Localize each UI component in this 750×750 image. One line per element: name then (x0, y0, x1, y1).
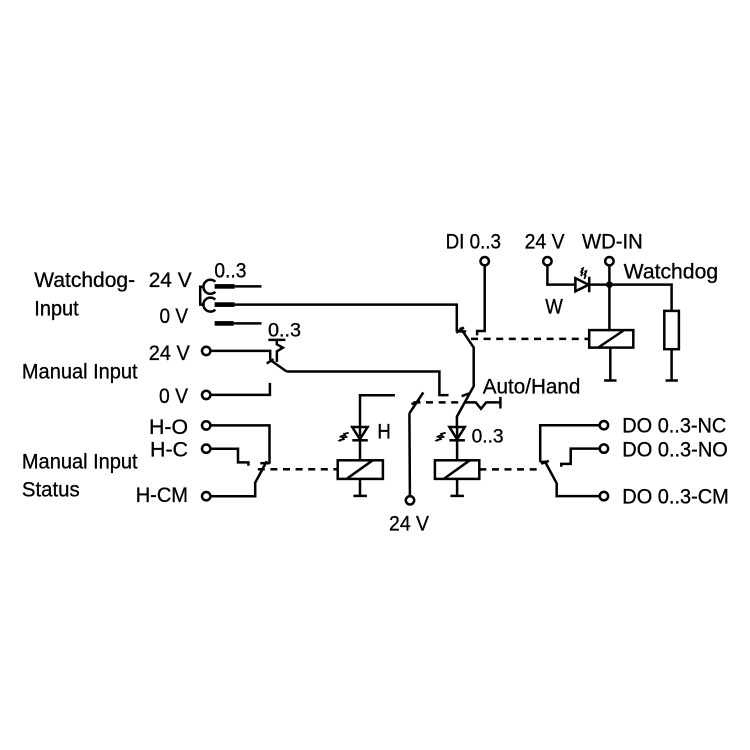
ground (coil W) (604, 379, 616, 382)
relay coil W diagonal (598, 330, 624, 348)
LED 0..3 triangle (449, 427, 464, 439)
hand switch arm (409, 393, 423, 414)
relay coil H (338, 460, 383, 479)
svg-text:0 V: 0 V (160, 305, 189, 328)
svg-text:24 V: 24 V (149, 269, 192, 292)
wire button output long run (287, 372, 449, 396)
svg-text:DI 0..3: DI 0..3 (446, 231, 501, 254)
dashed link watchdog relay (471, 338, 589, 341)
LED W cathode bar (588, 277, 591, 293)
LED W emission arrows (581, 267, 588, 279)
wire 0V manual stub (210, 383, 270, 395)
terminal DO NC (600, 421, 608, 429)
svg-text:H: H (377, 420, 390, 443)
svg-text:0..3: 0..3 (268, 320, 301, 341)
H contact seat (260, 462, 269, 465)
DO contact seat (540, 461, 547, 464)
auto/hand handle bar (499, 397, 502, 409)
wire DO NC to seat (540, 425, 600, 462)
svg-text:Auto/Hand: Auto/Hand (483, 375, 581, 398)
svg-text:24 V: 24 V (389, 513, 429, 536)
LED H triangle (352, 427, 367, 439)
terminal 24 V top (543, 257, 551, 265)
wire pin1 stub (235, 285, 262, 288)
watchdog contact seat (457, 330, 466, 333)
LED H emission arrows (337, 433, 348, 442)
svg-text:H-O: H-O (149, 416, 188, 439)
svg-text:WD-IN: WD-IN (582, 231, 643, 254)
connector socket C1 (203, 280, 215, 294)
wire resistor to ground (670, 349, 673, 380)
wire coil 0..3 to ground (456, 479, 459, 496)
resistor R (664, 311, 679, 349)
svg-text:Watchdog: Watchdog (624, 260, 718, 283)
svg-text:DO 0..3-CM: DO 0..3-CM (622, 486, 729, 509)
svg-text:Manual Input: Manual Input (22, 450, 138, 473)
dashed link H relay (258, 468, 338, 471)
svg-text:H-CM: H-CM (136, 484, 188, 507)
terminal DI 0..3 (481, 257, 489, 265)
svg-text:0 V: 0 V (159, 385, 188, 408)
terminal 0V manual (202, 391, 210, 399)
svg-text:Watchdog-: Watchdog- (34, 269, 135, 292)
relay coil 0..3 diagonal (444, 460, 470, 479)
terminal WD-IN (605, 257, 613, 265)
wire junction down to coil (608, 285, 611, 331)
wire pin3 stub (234, 322, 262, 325)
pushbutton stem (277, 340, 283, 362)
DO contact arm (545, 461, 600, 496)
svg-text:Status: Status (22, 478, 80, 501)
svg-text:DO 0..3-NO: DO 0..3-NO (622, 439, 728, 462)
dashed link auto/hand left (413, 401, 462, 404)
wire coil W to ground (609, 348, 612, 381)
svg-text:0..3: 0..3 (472, 426, 504, 447)
auto contact tick (462, 393, 470, 396)
svg-text:0..3: 0..3 (214, 260, 246, 283)
terminal DO CM (600, 492, 608, 500)
svg-text:24 V: 24 V (525, 231, 565, 254)
wire WD-IN down (608, 265, 611, 284)
wire LED 0..3 to coil (456, 440, 459, 460)
connector pin bar 3 (215, 321, 234, 326)
LED W triangle (575, 278, 588, 291)
terminal H-O (202, 421, 210, 429)
svg-text:W: W (545, 296, 563, 319)
svg-text:Manual Input: Manual Input (22, 361, 138, 384)
wire H-O to seat (210, 425, 269, 463)
connector socket C2 (203, 298, 215, 312)
button contact tick (267, 359, 274, 363)
terminal H-CM (202, 492, 210, 500)
terminal 24 V bottom (406, 496, 414, 504)
relay coil W (589, 330, 633, 348)
relay coil H diagonal (347, 460, 373, 479)
LED 0..3 cathode bar (449, 439, 465, 442)
LED 0..3 emission arrows (434, 433, 445, 442)
ground (coil H) (353, 495, 367, 498)
connector pin bar 2 (215, 302, 235, 307)
wire DI down to contact seat (477, 266, 485, 336)
wire H-C hook (210, 449, 248, 466)
wire diode to junction to resistor (589, 285, 671, 311)
wire coil H to ground (359, 479, 362, 496)
terminal 24V manual (202, 347, 210, 355)
connector bracket (200, 287, 204, 305)
svg-text:24 V: 24 V (149, 342, 190, 365)
pushbutton bar (268, 339, 285, 342)
button contact arm (270, 360, 286, 372)
connector pin bar 1 (215, 284, 235, 289)
ground (resistor) (666, 379, 678, 382)
watchdog contact tick (456, 327, 464, 332)
dashed link DO relay (479, 468, 539, 471)
ground (coil 0..3) (450, 495, 464, 498)
relay coil 0..3 (435, 460, 479, 479)
svg-text:Input: Input (34, 298, 79, 321)
LED H lead through (359, 427, 362, 440)
LED H cathode bar (352, 439, 368, 442)
wire DO NO hook (561, 449, 599, 467)
svg-text:DO 0..3-NC: DO 0..3-NC (622, 414, 726, 437)
watchdog contact arm (457, 328, 474, 427)
svg-text:H-C: H-C (150, 438, 188, 461)
wire 24V to diode (547, 265, 575, 284)
wire 0V long run to watchdog contact (235, 305, 457, 332)
wire H-CM and contact arm (210, 461, 266, 496)
wire 24V manual (210, 351, 270, 360)
terminal H-C (202, 445, 210, 453)
hand switch tick (411, 401, 420, 404)
wire LED H to coil (359, 440, 362, 460)
LED 0..3 lead through (456, 427, 459, 440)
DO contact tick (541, 461, 549, 464)
wire hand switch to 24V terminal (408, 413, 411, 496)
junction node (606, 281, 613, 288)
auto/hand linkage zigzag (465, 402, 501, 408)
wire H branch open end (360, 395, 395, 426)
terminal DO NO (600, 444, 608, 452)
